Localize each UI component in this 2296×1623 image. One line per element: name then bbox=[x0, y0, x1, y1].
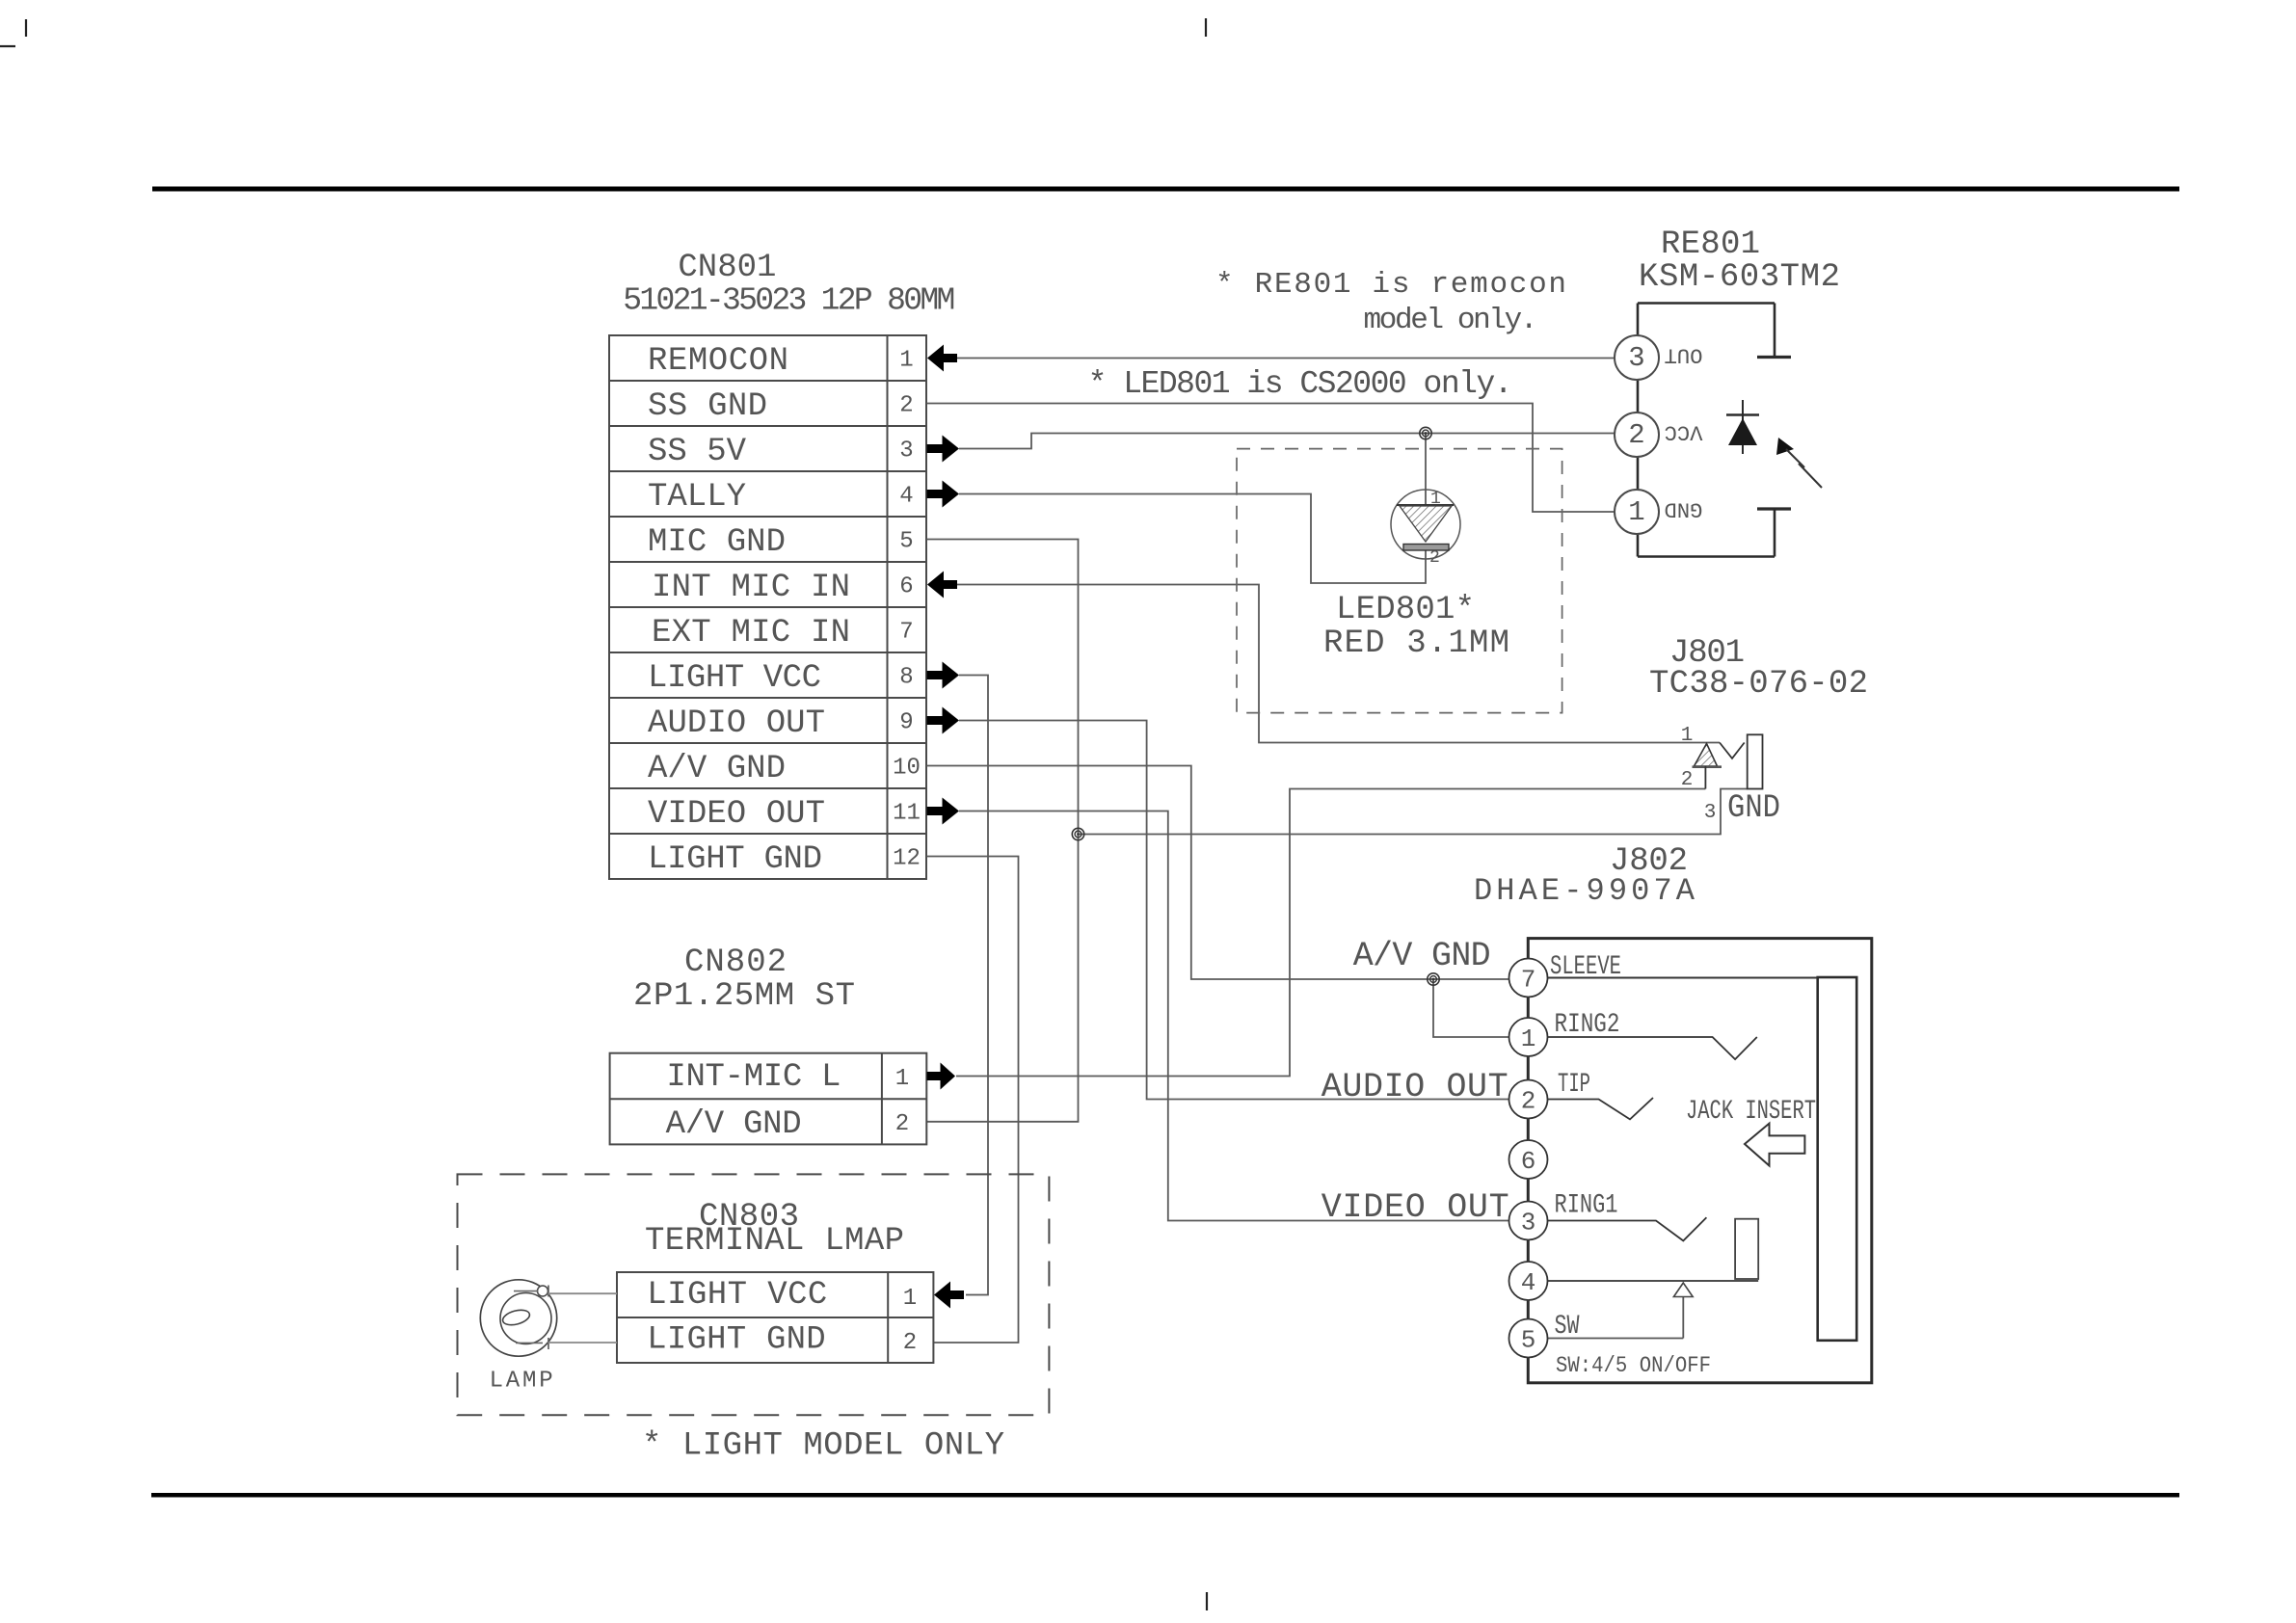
svg-text:VIDEO OUT: VIDEO OUT bbox=[648, 796, 825, 833]
RE801 photodiode bbox=[1742, 400, 1744, 454]
svg-text:RED 3.1MM: RED 3.1MM bbox=[1323, 625, 1509, 662]
svg-text:1: 1 bbox=[1430, 490, 1441, 509]
svg-text:RING1: RING1 bbox=[1555, 1191, 1618, 1221]
J802 pin 2 bbox=[1509, 1080, 1548, 1119]
svg-text:2: 2 bbox=[1628, 419, 1644, 451]
CN801 pin 8 arrow (out) bbox=[927, 671, 943, 679]
page mark bottom-center bbox=[1206, 1592, 1208, 1610]
connector CN801 body bbox=[609, 335, 926, 879]
RE801 pin 2 VCC bbox=[1615, 412, 1659, 457]
svg-text:* RE801 is remocon: * RE801 is remocon bbox=[1215, 268, 1566, 302]
J802 pin 6 bbox=[1509, 1140, 1548, 1179]
svg-text:12: 12 bbox=[893, 846, 921, 872]
J802 jack insert arrow bbox=[1745, 1124, 1804, 1166]
svg-text:MIC GND: MIC GND bbox=[648, 524, 786, 561]
LED801 symbol bbox=[1391, 490, 1460, 559]
svg-text:AUDIO OUT: AUDIO OUT bbox=[648, 705, 825, 742]
LED801 dashed box bbox=[1237, 449, 1562, 713]
svg-text:GND: GND bbox=[1727, 790, 1780, 827]
J802 pin 7 bbox=[1509, 959, 1548, 998]
svg-text:A/V GND: A/V GND bbox=[648, 751, 786, 787]
svg-text:6: 6 bbox=[899, 574, 913, 600]
J802 RING1 contact bbox=[1548, 1217, 1707, 1240]
J802 contact pad bbox=[1735, 1219, 1758, 1279]
svg-text:LED801*: LED801* bbox=[1336, 592, 1475, 628]
svg-text:SW: SW bbox=[1555, 1312, 1580, 1342]
svg-text:A/V GND: A/V GND bbox=[666, 1106, 802, 1143]
svg-text:LIGHT VCC: LIGHT VCC bbox=[648, 660, 821, 697]
svg-text:TALLY: TALLY bbox=[648, 479, 746, 516]
svg-text:RE801: RE801 bbox=[1661, 226, 1760, 263]
svg-text:CN802: CN802 bbox=[684, 945, 787, 981]
svg-text:9: 9 bbox=[899, 710, 913, 736]
wire SS 5V pin3 to RE801 VCC bbox=[959, 434, 1615, 449]
RE801 pin 1 GND bbox=[1615, 490, 1659, 534]
wire VIDEO OUT pin11 to J802 RING1 bbox=[959, 811, 1509, 1221]
wire SS 5V branch to LED801 anode bbox=[1425, 434, 1427, 506]
svg-text:1: 1 bbox=[895, 1066, 909, 1092]
CN801 pin 3 arrow (out) bbox=[927, 444, 943, 453]
J802 pin4 line bbox=[1548, 1280, 1759, 1282]
svg-text:1: 1 bbox=[1521, 1024, 1536, 1053]
wire LIGHT VCC pin8 to CN803 pin1 bbox=[959, 676, 988, 1295]
svg-text:GND: GND bbox=[1665, 497, 1703, 521]
svg-text:VCC: VCC bbox=[1665, 420, 1703, 444]
svg-text:3: 3 bbox=[1628, 342, 1644, 374]
CN802 pin 1 arrow (out) bbox=[927, 1072, 941, 1080]
wire MIC GND branch to J801 pin3 GND bbox=[1079, 789, 1748, 835]
wire SS GND pin2 to RE801 GND bbox=[927, 404, 1615, 513]
wire LIGHT GND pin12 to CN803 pin2 bbox=[927, 857, 1019, 1344]
J802 outer box bbox=[1528, 939, 1872, 1383]
CN801 pin 11 arrow (out) bbox=[927, 807, 943, 815]
svg-text:LIGHT GND: LIGHT GND bbox=[648, 841, 822, 878]
svg-text:SS GND: SS GND bbox=[648, 388, 767, 425]
connector CN803 body bbox=[617, 1272, 933, 1363]
svg-text:1: 1 bbox=[1628, 496, 1644, 528]
svg-text:1: 1 bbox=[1681, 725, 1694, 747]
svg-text:SS 5V: SS 5V bbox=[648, 434, 747, 470]
lamp terminal 2 wire bbox=[516, 1342, 543, 1344]
svg-text:OUT: OUT bbox=[1665, 343, 1703, 367]
page mark top-center bbox=[1205, 18, 1207, 37]
svg-text:AUDIO OUT: AUDIO OUT bbox=[1322, 1068, 1508, 1106]
svg-text:7: 7 bbox=[899, 620, 913, 646]
svg-text:5: 5 bbox=[899, 529, 913, 555]
svg-text:51021-35023 12P 80MM: 51021-35023 12P 80MM bbox=[623, 283, 955, 319]
J802 pin 1 bbox=[1509, 1018, 1548, 1056]
junction MICGND/J801 bbox=[1072, 828, 1083, 839]
J801 plug bar bbox=[1748, 734, 1763, 788]
RE801 incoming light arrow bbox=[1776, 438, 1794, 455]
svg-text:INT-MIC L: INT-MIC L bbox=[666, 1059, 841, 1096]
svg-text:INT MIC IN: INT MIC IN bbox=[652, 570, 850, 606]
svg-text:1: 1 bbox=[903, 1286, 917, 1312]
svg-text:* LED801 is CS2000 only.: * LED801 is CS2000 only. bbox=[1088, 366, 1513, 402]
svg-text:CN801: CN801 bbox=[678, 250, 776, 286]
wire A/V GND pin10 to J802 SLEEVE bbox=[927, 766, 1509, 980]
wire INT MIC IN pin6 to J801 pin1 bbox=[957, 585, 1720, 743]
bottom rule bbox=[151, 1493, 2179, 1498]
lamp symbol bbox=[480, 1280, 556, 1356]
svg-text:2: 2 bbox=[895, 1111, 909, 1137]
J802 SW line and arrow bbox=[1548, 1338, 1684, 1340]
svg-text:8: 8 bbox=[899, 665, 913, 691]
J801 pin 2 stem bbox=[1704, 766, 1706, 789]
CN801 pin 4 arrow (out) bbox=[927, 490, 943, 498]
RE801 body bbox=[1637, 304, 1640, 557]
svg-text:2: 2 bbox=[899, 393, 913, 419]
top rule bbox=[152, 187, 2179, 192]
svg-text:2: 2 bbox=[1429, 548, 1440, 568]
svg-text:4: 4 bbox=[1521, 1268, 1536, 1297]
svg-text:RING2: RING2 bbox=[1555, 1010, 1620, 1040]
wire TALLY pin4 to LED801 cathode bbox=[959, 494, 1426, 584]
svg-text:VIDEO OUT: VIDEO OUT bbox=[1322, 1188, 1509, 1227]
svg-text:7: 7 bbox=[1521, 966, 1536, 995]
svg-text:2P1.25MM ST: 2P1.25MM ST bbox=[633, 978, 855, 1015]
svg-text:3: 3 bbox=[1704, 802, 1717, 824]
svg-text:model only.: model only. bbox=[1364, 304, 1538, 337]
junction AVGND bbox=[1428, 973, 1439, 985]
svg-text:* LIGHT MODEL ONLY: * LIGHT MODEL ONLY bbox=[642, 1428, 1004, 1465]
J802 RING2 contact bbox=[1548, 1037, 1757, 1059]
J801 tip contact (V) bbox=[1720, 743, 1745, 758]
J801 mic element (hatched triangle) bbox=[1695, 744, 1718, 767]
wire AUDIO OUT pin9 to J802 TIP bbox=[959, 721, 1509, 1100]
svg-text:TIP: TIP bbox=[1558, 1070, 1590, 1100]
RE801 pin 3 OUT bbox=[1615, 335, 1659, 380]
svg-text:2: 2 bbox=[1521, 1087, 1536, 1116]
svg-text:11: 11 bbox=[893, 801, 921, 827]
J802 pin 5 bbox=[1509, 1319, 1548, 1358]
svg-text:1: 1 bbox=[899, 348, 913, 374]
svg-text:3: 3 bbox=[1521, 1209, 1536, 1237]
svg-text:2: 2 bbox=[1681, 769, 1694, 791]
svg-text:3: 3 bbox=[899, 439, 913, 465]
svg-text:2: 2 bbox=[903, 1330, 917, 1356]
CN803 pin 1 arrow (in) bbox=[934, 1282, 950, 1309]
lamp terminal 1 wire bbox=[514, 1290, 538, 1292]
wire MIC GND pin5 down to CN802 pin2 bbox=[927, 540, 1079, 1122]
svg-text:SW:4/5 ON/OFF: SW:4/5 ON/OFF bbox=[1556, 1353, 1711, 1378]
CN801 pin 1 arrow (in) bbox=[927, 345, 944, 372]
svg-text:5: 5 bbox=[1521, 1326, 1536, 1355]
CN801 pin 6 arrow (in) bbox=[927, 572, 944, 599]
J802 plug shaft bar bbox=[1818, 977, 1857, 1341]
svg-text:EXT MIC IN: EXT MIC IN bbox=[652, 615, 850, 652]
svg-text:LIGHT GND: LIGHT GND bbox=[647, 1322, 825, 1359]
svg-text:6: 6 bbox=[1521, 1147, 1536, 1176]
svg-text:LIGHT VCC: LIGHT VCC bbox=[647, 1277, 827, 1314]
svg-text:JACK INSERT: JACK INSERT bbox=[1686, 1097, 1816, 1127]
svg-text:TC38-076-02: TC38-076-02 bbox=[1649, 666, 1868, 703]
svg-text:TERMINAL LMAP: TERMINAL LMAP bbox=[645, 1223, 904, 1260]
wire A/V GND branch to J802 RING2 bbox=[1433, 979, 1509, 1037]
svg-text:REMOCON: REMOCON bbox=[648, 343, 788, 380]
J802 pin 3 bbox=[1509, 1202, 1548, 1240]
CN803 dashed box bbox=[458, 1174, 1050, 1415]
svg-text:A/V GND: A/V GND bbox=[1353, 937, 1491, 975]
connector CN802 body bbox=[610, 1053, 927, 1145]
wire REMOCON pin1 to RE801 OUT bbox=[957, 358, 1615, 359]
CN801 pin 9 arrow (out) bbox=[927, 716, 943, 725]
J802 TIP contact bbox=[1548, 1098, 1654, 1119]
svg-text:KSM-603TM2: KSM-603TM2 bbox=[1639, 259, 1840, 296]
J802 sleeve line bbox=[1548, 977, 1818, 979]
wire J801 pin2 to CN802 pin1 bbox=[956, 789, 1705, 1077]
J802 pin 4 bbox=[1509, 1262, 1548, 1300]
svg-text:SLEEVE: SLEEVE bbox=[1550, 952, 1621, 982]
junction SS5V/LED bbox=[1420, 427, 1431, 439]
svg-text:4: 4 bbox=[899, 484, 913, 510]
page corner mark top-left bbox=[25, 19, 27, 37]
svg-text:10: 10 bbox=[893, 756, 921, 782]
